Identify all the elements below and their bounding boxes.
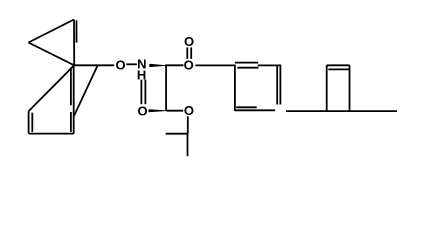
wire cyclobutene left vertical — [326, 65, 328, 111]
wire cyclobutene top inner double line — [328, 68, 349, 70]
wire C1 to C2 vertical bond — [165, 66, 167, 111]
wire O5 down to isopropyl CH — [187, 116, 189, 134]
wire bridge diagonal from CH vertex to ring — [74, 65, 98, 115]
wire lower ring right inner double line upper segment — [70, 68, 72, 106]
wire benzene top outer double line — [235, 62, 258, 64]
wire junction to lower ring upper-left corner — [29, 65, 75, 111]
wire benzene top inner double line — [237, 67, 258, 69]
wire lower ring right vertical outer — [73, 65, 75, 133]
svg-text:O: O — [138, 104, 148, 119]
wire benzene left vertical — [234, 65, 236, 111]
wire benzene top right single bond — [258, 64, 281, 66]
wire lower ring left vertical inner double line — [31, 113, 33, 132]
wire isopropyl methyl down — [187, 134, 189, 157]
svg-text:O: O — [184, 34, 194, 49]
wire cyclobutene right vertical — [349, 65, 351, 111]
wedge bond O2 to C2 — [149, 109, 167, 112]
wire long chain horizontal line — [286, 110, 397, 112]
wire triangle bottom edge apex to junction — [28, 43, 74, 66]
wedge bond N to C1 — [149, 64, 166, 67]
wire C2 to O5 bond — [166, 110, 183, 112]
wire vertical bond top vertex to junction — [73, 20, 75, 66]
wire junction to O1 horizontal — [74, 64, 114, 66]
wire O4 to benzene bond — [195, 64, 235, 66]
wire N double bond down left line — [140, 80, 142, 105]
wire carbonyl double bond left line — [186, 47, 188, 59]
wire lower ring right inner double line lower segment — [70, 112, 72, 132]
wire C1 to O4 ester bond — [165, 64, 184, 66]
wire triangle top edge apex to top vertex — [28, 20, 74, 43]
svg-text:O: O — [116, 58, 126, 73]
svg-text:O: O — [184, 58, 194, 73]
wire isopropyl methyl left — [166, 133, 188, 135]
wire carbonyl double bond right line — [190, 47, 192, 59]
wire O1 to N — [126, 63, 137, 65]
svg-text:O: O — [184, 103, 194, 118]
wire benzene right double bond inner line — [276, 66, 278, 104]
wire lower ring left vertical outer — [28, 111, 30, 133]
wire lower ring bottom edge — [29, 133, 74, 135]
wire benzene bottom outer line — [234, 109, 275, 111]
wire cyclobutene top outer line — [327, 64, 350, 66]
svg-text:H: H — [137, 68, 146, 83]
wire benzene right double bond outer line — [279, 66, 281, 105]
wire benzene bottom inner double line — [236, 106, 257, 108]
wire inner double line of top vertical bond — [76, 20, 78, 42]
wire N double bond down right line — [144, 80, 146, 105]
